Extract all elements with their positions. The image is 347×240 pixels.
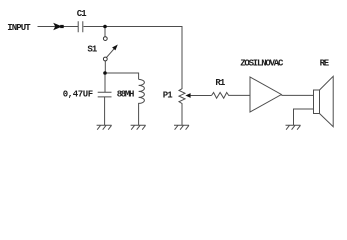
svg-text:C1: C1: [77, 9, 88, 19]
svg-text:P1: P1: [163, 91, 174, 101]
svg-text:INPUT: INPUT: [7, 23, 31, 33]
svg-text:R1: R1: [215, 78, 226, 88]
svg-text:88MH: 88MH: [117, 90, 134, 100]
svg-text:S1: S1: [87, 45, 98, 55]
svg-text:0,47UF: 0,47UF: [63, 90, 93, 100]
svg-text:ZOSILNOVAC: ZOSILNOVAC: [240, 59, 284, 69]
